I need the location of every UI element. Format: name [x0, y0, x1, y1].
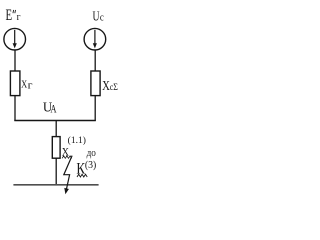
lightning bolt fault arrow	[64, 156, 72, 195]
resistor xg (reactance rectangle)	[10, 71, 20, 96]
svg-text:г: г	[17, 12, 22, 23]
wire xc to bus	[94, 96, 96, 121]
label Uc (system voltage)	[93, 10, 105, 25]
wire x11 to fault	[55, 158, 57, 184]
svg-text:U: U	[93, 10, 100, 25]
svg-text:Х: Х	[21, 79, 27, 91]
resistor xc-sigma (reactance rectangle)	[91, 71, 100, 96]
svg-text:(1.1): (1.1)	[68, 135, 86, 145]
label E"g (generator EMF)	[6, 7, 22, 24]
label K(3) fault designation	[76, 159, 96, 177]
wire xg to bus	[14, 96, 16, 121]
label Ua (node A)	[43, 101, 57, 116]
svg-text:E: E	[6, 7, 13, 24]
label xg	[21, 79, 33, 92]
wire bus to x11	[55, 121, 57, 136]
svg-text:г: г	[28, 80, 33, 91]
squiggle underline under x label	[62, 156, 72, 158]
svg-text:сΣ: сΣ	[110, 83, 119, 93]
wire right source to xc	[94, 50, 96, 71]
fault line (earth line)	[13, 184, 98, 186]
bus bar node A	[14, 120, 96, 122]
svg-text:(3): (3)	[85, 159, 97, 171]
source E (circle with down arrow)	[4, 28, 26, 50]
svg-text:с: с	[100, 13, 104, 24]
svg-text:до: до	[87, 147, 97, 159]
wire left source to xg	[14, 50, 16, 71]
resistor x(1.1)do (reactance rectangle)	[52, 137, 60, 159]
svg-text:А: А	[50, 104, 57, 116]
source U (circle with down arrow)	[84, 28, 106, 50]
label x(1.1)do	[62, 135, 97, 159]
label xc-sigma	[102, 79, 118, 94]
squiggle underline under K	[77, 174, 87, 177]
